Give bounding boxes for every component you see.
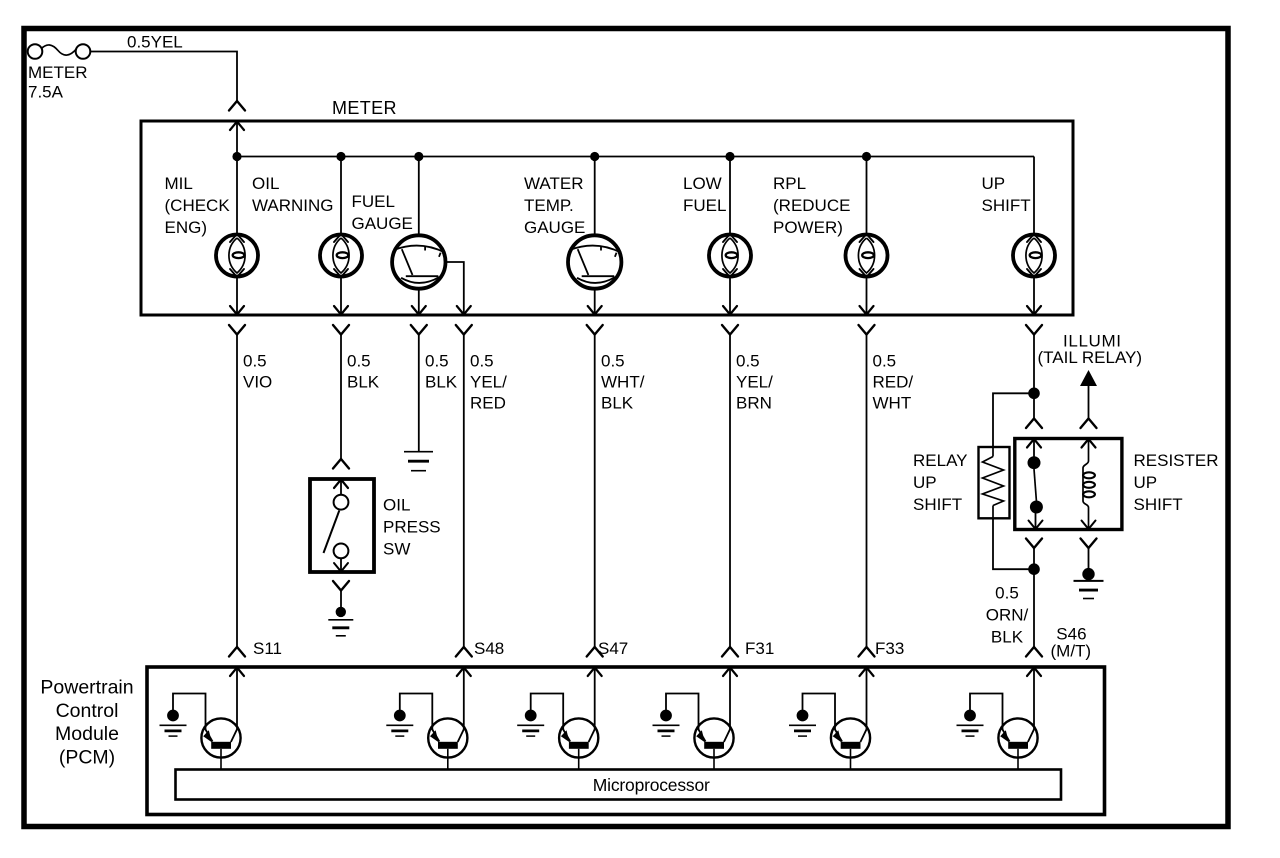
wire S11 inside PCM [236, 667, 238, 729]
connector into OIL PRESS SW [333, 459, 349, 488]
wire bus to LOW lamp [729, 157, 731, 235]
svg-text:BLK: BLK [991, 628, 1024, 647]
junction node on bus at LOW [725, 152, 734, 161]
OIL PRESS SW box [310, 479, 374, 572]
svg-text:0.5: 0.5 [736, 352, 760, 371]
connector arrow bottom inside sw-box [334, 563, 348, 572]
svg-text:(CHECK: (CHECK [165, 196, 231, 215]
wire 0.5 ORN/BLK [1033, 569, 1035, 647]
svg-text:ENG): ENG) [165, 218, 208, 237]
svg-text:RESISTER: RESISTER [1134, 451, 1219, 470]
wire S48 inside PCM [463, 667, 465, 729]
label OIL PRESS SW [383, 496, 441, 559]
connector F33 into PCM [859, 647, 875, 676]
wire S48 0.5YEL/RED [463, 335, 465, 648]
label ILLUMI (TAIL RELAY) [1038, 332, 1143, 368]
wire F33 0.5RED/WHT [866, 335, 868, 648]
svg-text:YEL/: YEL/ [736, 373, 773, 392]
label 0.5 YEL/BRN [736, 352, 773, 413]
wire S11 0.5VIO [236, 335, 238, 648]
label 0.5 YEL/RED [470, 352, 507, 413]
wire fuel gauge tap [446, 262, 464, 315]
wire Q2 emitter [400, 694, 433, 731]
svg-text:FUEL: FUEL [352, 192, 395, 211]
label 0.5 VIO [243, 352, 272, 392]
svg-text:GAUGE: GAUGE [352, 214, 413, 233]
wire bypass to relay coil [993, 393, 1034, 447]
svg-text:SHIFT: SHIFT [1134, 495, 1183, 514]
Powertrain Control Module (PCM) box [147, 667, 1105, 815]
connector at METER bottom RPL [859, 306, 875, 335]
svg-text:RED/: RED/ [873, 373, 914, 392]
label S11 [253, 639, 282, 658]
connector F31 into PCM [722, 647, 738, 676]
svg-text:SW: SW [383, 540, 410, 559]
connector at METER bottom OIL [333, 306, 349, 335]
connector at METER bottom UP SHIFT [1026, 306, 1042, 335]
svg-text:(REDUCE: (REDUCE [773, 196, 850, 215]
ground fuel-gauge BLK [404, 452, 433, 471]
svg-text:ORN/: ORN/ [986, 606, 1029, 625]
svg-text:0.5: 0.5 [995, 584, 1019, 603]
wire Q3 emitter [531, 694, 564, 731]
connector S47 into PCM [587, 647, 603, 676]
ground dot Q3 [525, 710, 537, 722]
wire WATER gauge to box edge [594, 289, 596, 315]
ground dot Q5 [797, 710, 809, 722]
wire bus to FUEL gauge [418, 157, 420, 236]
connector below OIL PRESS SW [333, 581, 349, 591]
junction node on bus at MIL [232, 152, 241, 161]
svg-text:OIL: OIL [252, 174, 279, 193]
indicator lamp LOW [709, 234, 751, 277]
connector into METER top [229, 101, 245, 130]
svg-text:0.5: 0.5 [470, 352, 494, 371]
svg-text:(PCM): (PCM) [59, 746, 115, 768]
junction node lower [1028, 563, 1040, 575]
wire bus to UP lamp [1033, 157, 1035, 235]
label 0.5 ORN/BLK [986, 584, 1029, 647]
label 0.5 WHT/BLK [601, 352, 645, 413]
transistor Q3 [559, 718, 598, 769]
label F31 [745, 639, 774, 658]
svg-text:WHT: WHT [873, 394, 912, 413]
wire 0.5 BLK to ground [418, 335, 420, 452]
transistor Q6 [998, 718, 1037, 769]
wire Q5 emitter [803, 694, 836, 731]
off-page arrow ILLUMI [1080, 370, 1097, 386]
svg-text:YEL/: YEL/ [470, 373, 507, 392]
label RESISTER UP SHIFT [1134, 451, 1219, 514]
svg-text:S47: S47 [598, 639, 628, 658]
label S46 (M/T) [1051, 625, 1092, 661]
label LOW FUEL [683, 174, 726, 215]
gauge FUEL [392, 235, 445, 288]
junction node on bus at OIL [336, 152, 345, 161]
label 0.5 BLK oil [347, 352, 380, 392]
wire MIL lamp to box edge [236, 277, 238, 316]
wire + contact top of switch [340, 479, 342, 495]
svg-text:RPL: RPL [773, 174, 806, 193]
connector S46 into PCM [1026, 647, 1042, 676]
svg-text:METER: METER [28, 63, 88, 82]
indicator lamp OIL [320, 234, 362, 277]
svg-text:WATER: WATER [524, 174, 584, 193]
wire LOW lamp to box edge [729, 277, 731, 316]
wire OIL lamp to box edge [340, 277, 342, 316]
svg-text:UP: UP [982, 174, 1006, 193]
wire sw to ground [340, 591, 342, 612]
wire to resister box [1033, 393, 1035, 418]
svg-text:0.5: 0.5 [243, 352, 267, 371]
svg-text:0.5YEL: 0.5YEL [127, 33, 183, 52]
gauge WATER [568, 235, 621, 288]
RELAY UP SHIFT box [979, 447, 1010, 518]
connector below resister left [1026, 539, 1042, 549]
ground Q2 emitter [386, 725, 413, 736]
connector at METER bottom FUEL-tap [456, 306, 472, 335]
label 0.5 RED/WHT [873, 352, 914, 413]
svg-text:RELAY: RELAY [913, 451, 968, 470]
label METER [332, 98, 397, 118]
transistor Q4 [694, 718, 733, 769]
contact dot upper [1028, 456, 1041, 469]
coil RESISTER UP SHIFT [1083, 439, 1095, 530]
contact top [334, 495, 349, 510]
svg-text:TEMP.: TEMP. [524, 196, 574, 215]
svg-text:BLK: BLK [347, 373, 380, 392]
wire F31 0.5YEL/BRN [729, 335, 731, 648]
label Microprocessor [593, 775, 710, 795]
junction node on bus at FUEL [414, 152, 423, 161]
svg-text:0.5: 0.5 [601, 352, 625, 371]
wire Q6 emitter [970, 694, 1003, 731]
ground Q3 emitter [517, 725, 544, 736]
svg-text:RED: RED [470, 394, 506, 413]
svg-text:(M/T): (M/T) [1051, 642, 1092, 661]
arrow top inside resister left [0, 0, 1, 1]
wire resister switch bottom [1035, 513, 1037, 530]
transistor Q1 [201, 718, 240, 769]
svg-text:WHT/: WHT/ [601, 373, 645, 392]
label 0.5YEL [127, 33, 183, 52]
wire F33 inside PCM [866, 667, 868, 729]
svg-text:UP: UP [1134, 473, 1158, 492]
bus wire inside METER [237, 156, 1034, 158]
label Powertrain Control Module (PCM) [40, 677, 133, 769]
arrow sw bottom [1029, 521, 1043, 530]
svg-text:UP: UP [913, 473, 937, 492]
label RELAY UP SHIFT [913, 451, 968, 514]
ground dot Q6 [964, 710, 976, 722]
wire S46 inside PCM [1033, 667, 1035, 729]
arrow bottom inside coil [1082, 521, 1096, 530]
label OIL WARNING [252, 174, 334, 215]
svg-text:VIO: VIO [243, 373, 272, 392]
svg-text:FUEL: FUEL [683, 196, 726, 215]
connector at METER bottom LOW FUEL [722, 306, 738, 335]
svg-text:METER: METER [332, 98, 397, 118]
switch blade [324, 511, 340, 554]
contact bottom [334, 544, 349, 559]
label FUEL GAUGE [352, 192, 413, 233]
connector into RESISTER right [1081, 419, 1097, 448]
wire relay coil to lower node [993, 518, 1034, 569]
svg-text:0.5: 0.5 [873, 352, 897, 371]
svg-text:POWER): POWER) [773, 218, 843, 237]
wire 0.5YEL fuse to METER [90, 52, 237, 102]
wire FUEL gauge to box edge [418, 289, 420, 315]
label WATER TEMP. GAUGE [524, 174, 585, 237]
label 0.5 BLK fuel [425, 352, 458, 392]
METER box [141, 121, 1073, 315]
junction node on bus at WATER [590, 152, 599, 161]
wire coil to ground [1088, 548, 1090, 570]
label METER 7.5A fuse [28, 63, 88, 102]
ground Q6 emitter [957, 725, 984, 736]
svg-text:BRN: BRN [736, 394, 772, 413]
svg-text:0.5: 0.5 [425, 352, 449, 371]
svg-text:MIL: MIL [165, 174, 193, 193]
svg-text:PRESS: PRESS [383, 518, 441, 537]
svg-text:WARNING: WARNING [252, 196, 334, 215]
wire RPL lamp to box edge [866, 277, 868, 316]
svg-text:7.5A: 7.5A [28, 83, 64, 102]
svg-text:S11: S11 [253, 639, 282, 658]
connector at METER bottom FUEL-gnd [411, 306, 427, 335]
wire bottom of switch [340, 558, 342, 572]
label S48 [474, 639, 504, 658]
wire UP SHIFT drop [1033, 335, 1035, 394]
svg-text:F31: F31 [745, 639, 774, 658]
connector S48 into PCM [456, 647, 472, 676]
connector at METER bottom MIL [229, 306, 245, 335]
svg-text:(TAIL RELAY): (TAIL RELAY) [1038, 348, 1143, 367]
ground Q1 emitter [160, 725, 187, 736]
svg-text:F33: F33 [875, 639, 904, 658]
wire resister switch top [1033, 439, 1035, 458]
junction dot oil sw ground [336, 607, 346, 617]
connector S11 into PCM [229, 647, 245, 676]
svg-text:Control: Control [56, 700, 119, 722]
transistor Q2 [428, 718, 467, 769]
ground dot Q4 [660, 710, 672, 722]
wire S47 0.5WHT/BLK [594, 335, 596, 648]
svg-text:Module: Module [55, 723, 119, 745]
svg-text:BLK: BLK [601, 394, 634, 413]
ground dot Q2 [394, 710, 406, 722]
svg-text:SHIFT: SHIFT [982, 196, 1031, 215]
wire bus to WATER gauge [594, 157, 596, 236]
junction node upper [1028, 388, 1040, 400]
svg-text:Microprocessor: Microprocessor [593, 775, 710, 795]
relay coil resistor element [983, 447, 1004, 518]
ground below resister coil [1074, 581, 1104, 599]
label S47 [598, 639, 628, 658]
wire bus to OIL lamp [340, 157, 342, 235]
wire bus to RPL lamp [866, 157, 868, 235]
junction dot coil ground [1082, 568, 1094, 580]
label RPL (REDUCE POWER) [773, 174, 850, 237]
ground Q4 emitter [653, 725, 680, 736]
junction node on bus at RPL [862, 152, 871, 161]
svg-text:GAUGE: GAUGE [524, 218, 585, 237]
svg-text:OIL: OIL [383, 496, 410, 515]
wire to lower node [1033, 548, 1035, 569]
indicator lamp RPL [846, 234, 888, 277]
svg-text:SHIFT: SHIFT [913, 495, 962, 514]
Microprocessor box [176, 770, 1062, 800]
ground dot Q1 [167, 710, 179, 722]
label UP SHIFT [982, 174, 1031, 215]
indicator lamp UP [1013, 234, 1055, 277]
connector below resister right [1081, 539, 1097, 549]
contact dot lower [1030, 501, 1043, 514]
label MIL (CHECK ENG) [165, 174, 231, 237]
wire S47 inside PCM [594, 667, 596, 729]
wire ILLUMI drop [1088, 386, 1090, 419]
wire 0.5 BLK to oil press sw [340, 335, 342, 460]
svg-text:LOW: LOW [683, 174, 722, 193]
indicator lamp MIL [216, 234, 258, 277]
wire bus to MIL lamp [236, 157, 238, 235]
svg-text:Powertrain: Powertrain [40, 677, 133, 699]
wire Q1 emitter [173, 694, 206, 731]
wire UP lamp to box edge [1033, 277, 1035, 316]
connector at METER bottom WATER [587, 306, 603, 335]
svg-text:BLK: BLK [425, 373, 458, 392]
wire Q4 emitter [666, 694, 699, 731]
transistor Q5 [831, 718, 870, 769]
svg-text:0.5: 0.5 [347, 352, 371, 371]
label F33 [875, 639, 904, 658]
fuse METER 7.5A [28, 44, 91, 59]
svg-text:S48: S48 [474, 639, 504, 658]
RESISTER UP SHIFT box [1015, 439, 1122, 530]
wire into bus [236, 121, 238, 157]
connector into RESISTER left [1026, 419, 1042, 448]
ground below OIL PRESS SW [328, 620, 353, 636]
wire F31 inside PCM [729, 667, 731, 729]
switch blade resister [1034, 469, 1036, 501]
ground Q5 emitter [789, 725, 816, 736]
